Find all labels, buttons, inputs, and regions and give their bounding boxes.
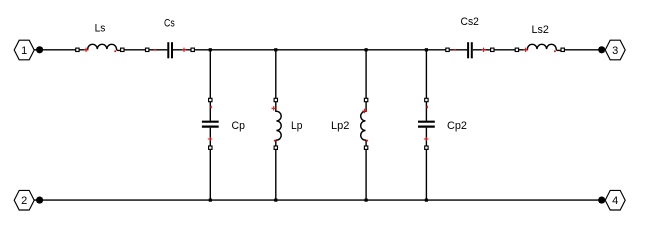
shunt branch Cp2 : wire from top rail xyxy=(425,50,427,99)
svg-text:2: 2 xyxy=(21,195,27,207)
svg-text:Cp: Cp xyxy=(232,120,245,132)
capacitor Cp2 xyxy=(418,98,435,149)
wire Lp2 to bottom rail xyxy=(365,150,367,201)
svg-text:Cs: Cs xyxy=(164,17,175,29)
node dot at port 4 xyxy=(598,197,605,204)
wire Cp2 to bottom rail xyxy=(425,150,427,201)
port 3 xyxy=(605,40,625,60)
svg-text:Cs2: Cs2 xyxy=(461,16,479,28)
svg-text:3: 3 xyxy=(612,45,618,57)
svg-text:Cp2: Cp2 xyxy=(447,120,467,132)
inductor Ls2 xyxy=(515,44,564,52)
svg-text:Ls2: Ls2 xyxy=(532,24,549,36)
capacitor Cs2 xyxy=(446,42,494,58)
inductor Lp xyxy=(272,98,282,149)
svg-text:1: 1 xyxy=(21,45,27,57)
node dot at port 2 xyxy=(36,197,43,204)
wire Cs2 to Ls2 xyxy=(494,49,515,51)
wire Ls2 to port 3 xyxy=(564,49,605,51)
junction top of Lp2 xyxy=(365,48,368,51)
wire Cp to bottom rail xyxy=(209,150,211,201)
junction bottom of Cp xyxy=(209,199,212,202)
shunt branch Lp2 : wire from top rail xyxy=(365,50,367,99)
junction bottom of Lp2 xyxy=(365,199,368,202)
wire port1 to Ls xyxy=(34,49,75,51)
wire top rail Cs to Cs2 xyxy=(195,49,446,51)
wire Ls to Cs xyxy=(124,49,146,51)
inductor Ls xyxy=(76,44,124,52)
port 2 xyxy=(14,190,34,210)
svg-text:Ls: Ls xyxy=(95,23,106,35)
capacitor Cp xyxy=(202,98,219,149)
svg-text:Lp: Lp xyxy=(291,120,302,132)
junction bottom of Lp xyxy=(274,199,277,202)
svg-text:4: 4 xyxy=(612,195,618,207)
svg-text:Lp2: Lp2 xyxy=(331,120,349,132)
inductor Lp2 xyxy=(361,98,368,149)
port 4 xyxy=(605,190,625,210)
junction bottom of Cp2 xyxy=(425,199,428,202)
shunt branch Lp : wire from top rail xyxy=(275,50,277,99)
node dot at port 1 xyxy=(36,46,43,53)
junction top of Cp2 xyxy=(425,48,428,51)
node dot at port 3 xyxy=(598,46,605,53)
capacitor Cs xyxy=(146,42,195,58)
port 1 xyxy=(14,40,34,60)
wire bottom rail port 2 to port 4 xyxy=(34,199,605,201)
junction top of Lp xyxy=(274,48,277,51)
wire Lp to bottom rail xyxy=(275,150,277,201)
shunt branch Cp : wire from top rail xyxy=(209,50,211,99)
junction top of Cp xyxy=(209,48,212,51)
